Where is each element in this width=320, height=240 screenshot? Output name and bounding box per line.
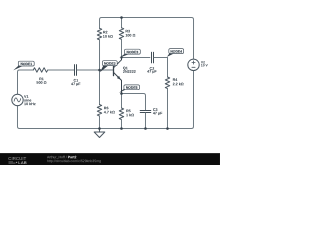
svg-text:10 kHz: 10 kHz xyxy=(24,102,36,106)
svg-text:47 µF: 47 µF xyxy=(71,82,81,86)
node NODE1 flag xyxy=(13,61,34,70)
wire V1 to NODE1 corner xyxy=(17,70,33,94)
junction dot collector node xyxy=(120,56,122,58)
footer bar xyxy=(0,153,220,165)
svg-text:10 V: 10 V xyxy=(201,63,209,67)
transistor Q1 collector line xyxy=(114,58,122,68)
wire C1 to Q1 base xyxy=(77,69,114,71)
node NODE4 flag xyxy=(167,49,184,57)
wire top rail xyxy=(100,17,194,59)
junction dot NODE2 xyxy=(98,69,101,72)
resistor R2 xyxy=(97,28,101,40)
voltage source V1 sine glyph xyxy=(14,98,21,102)
wire R6 bottom lead xyxy=(98,116,100,129)
wire R5 bottom lead xyxy=(120,120,122,129)
junction dot NODE5 xyxy=(120,92,123,95)
transistor Q1 emitter arrow xyxy=(117,76,121,80)
svg-text:10 kΩ: 10 kΩ xyxy=(103,35,113,39)
resistor R1 xyxy=(33,68,47,72)
wire C3 bottom lead xyxy=(144,113,146,129)
wire R4 bottom lead xyxy=(166,89,168,129)
resistor R3 xyxy=(119,28,123,40)
ground symbol triangle xyxy=(94,132,105,138)
wire C2 to NODE4 xyxy=(154,57,168,59)
capacitor C3 xyxy=(140,111,151,113)
svg-text:1 kΩ: 1 kΩ xyxy=(126,113,134,117)
svg-text:NODE4: NODE4 xyxy=(170,50,182,54)
transistor Q1 emitter line xyxy=(113,72,121,93)
junction dot rail C3 xyxy=(144,127,147,130)
junction dot rail ground xyxy=(98,127,101,130)
wire collector node to C2 xyxy=(122,57,150,59)
resistor R4 xyxy=(165,77,169,89)
node NODE2 flag xyxy=(100,61,117,73)
wire R3 top lead xyxy=(121,18,123,28)
transistor Q1 base bar xyxy=(113,65,115,75)
capacitor C2 xyxy=(152,52,154,63)
svg-text:http://circuitlab.com/c/529knb: http://circuitlab.com/c/529knb35mg xyxy=(47,159,101,163)
svg-text:2.2 kΩ: 2.2 kΩ xyxy=(173,82,184,86)
svg-text:LAB: LAB xyxy=(18,160,27,165)
svg-text:47 µF: 47 µF xyxy=(147,70,157,74)
voltage source V1 circle xyxy=(12,94,23,105)
svg-text:NODE2: NODE2 xyxy=(104,62,116,66)
voltage source V2 minus sign xyxy=(192,66,195,68)
wire R6 top lead xyxy=(98,70,100,104)
capacitor C1 xyxy=(75,65,77,76)
wire R4 top lead xyxy=(167,58,169,78)
svg-text:NODE5: NODE5 xyxy=(126,86,138,90)
svg-text:NODE1: NODE1 xyxy=(20,62,32,66)
svg-text:500 Ω: 500 Ω xyxy=(36,81,46,85)
node NODE3 flag xyxy=(119,49,140,58)
resistor R5 xyxy=(119,108,123,120)
svg-text:R4: R4 xyxy=(173,78,179,82)
svg-text:4.7 kΩ: 4.7 kΩ xyxy=(104,110,115,114)
wire NODE5 to C3 xyxy=(121,94,145,111)
wire R1 to C1 xyxy=(48,69,74,71)
ground symbol stub xyxy=(98,128,100,132)
wire R2 bottom lead xyxy=(99,40,101,70)
junction dot top rail R3 xyxy=(120,16,123,19)
wire bottom rail xyxy=(17,71,193,129)
resistor R6 xyxy=(97,104,101,116)
svg-text:47 µF: 47 µF xyxy=(153,111,163,115)
wire R3 bottom lead xyxy=(121,39,123,57)
wire R5 top lead xyxy=(120,94,122,109)
footer CircuitLab logo LAB xyxy=(8,160,26,165)
voltage source V2 circle xyxy=(188,59,199,70)
voltage source V2 plus sign xyxy=(192,61,195,64)
svg-text:NODE3: NODE3 xyxy=(127,50,139,54)
svg-text:2N2222: 2N2222 xyxy=(123,70,136,74)
node NODE5 flag xyxy=(119,85,140,93)
svg-text:100 Ω: 100 Ω xyxy=(125,34,135,38)
junction dot rail R5 xyxy=(120,127,123,130)
junction dot rail R4 xyxy=(166,127,169,130)
